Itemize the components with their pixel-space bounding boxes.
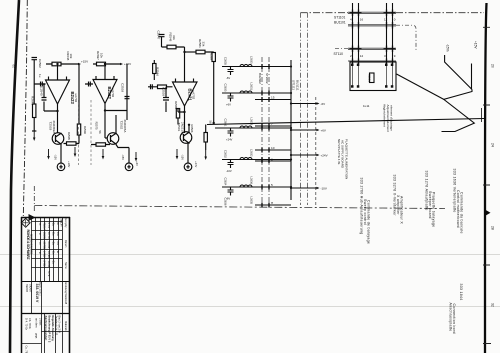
svg-text:8: 8 [271,158,273,162]
svg-text:L2633: L2633 [250,56,254,64]
svg-text:10.98: 10.98 [47,251,51,258]
svg-text:C2633: C2633 [224,84,228,92]
svg-text:MUNCHEN BRD: MUNCHEN BRD [29,234,33,254]
svg-text:H: H [271,201,273,205]
svg-text:ST110: ST110 [334,52,344,56]
svg-text:T2503: T2503 [49,122,53,131]
svg-text:R2501: R2501 [368,74,372,82]
svg-text:C2631: C2631 [224,119,228,127]
svg-text:16: 16 [360,18,364,22]
svg-text:32: 32 [491,303,495,307]
svg-text:R2506: R2506 [83,126,87,134]
svg-text:ST1111: ST1111 [292,80,296,90]
svg-text:Ch. 78 lb: Ch. 78 lb [28,318,32,329]
svg-text:R2585: R2585 [174,101,178,109]
svg-text:D: D [38,243,42,245]
svg-text:03.80: 03.80 [47,242,51,249]
svg-text:2N2905A: 2N2905A [123,120,127,134]
svg-text:1L11: 1L11 [363,104,370,108]
svg-text:333. 0019 V: 333. 0019 V [35,284,39,304]
svg-text:Mabstab: Mabstab [64,321,67,331]
svg-text:+15V: +15V [124,62,131,66]
svg-text:2 Blatt: 2 Blatt [39,318,43,326]
svg-text:10.98: 10.98 [47,261,51,268]
svg-text:L2635: L2635 [250,197,254,205]
svg-text:+24V: +24V [226,138,233,142]
svg-text:E: E [38,252,42,254]
svg-text:R2583: R2583 [210,52,214,60]
svg-text:BU1101: BU1101 [334,21,346,25]
svg-text:Cu. 78 lb: Cu. 78 lb [25,346,29,353]
svg-text:Zeichnung geandert: Zeichnung geandert [44,316,48,341]
svg-text:+15V: +15V [473,41,477,49]
svg-text:15: 15 [271,96,275,100]
svg-text:gepr.: gepr. [35,333,39,339]
svg-text:Connection bord: Connection bord [452,304,456,334]
svg-text:L2632: L2632 [250,149,254,157]
svg-text:Ecz.phy: Ecz.phy [64,219,67,229]
svg-text:33k: 33k [201,42,205,47]
svg-text:333 3278 X-Verstarker: 333 3278 X-Verstarker [393,175,397,217]
svg-text:56: 56 [209,121,213,124]
svg-text:333 1278 Ablaufplatte: 333 1278 Ablaufplatte [425,171,429,211]
svg-text:BU2602: BU2602 [258,73,262,84]
svg-text:10k: 10k [99,53,103,58]
svg-text:Commando du bascule: Commando du bascule [460,192,464,234]
svg-text:C2634: C2634 [224,178,228,186]
svg-text:X amplifier: X amplifier [396,195,400,215]
svg-text:ST2602: ST2602 [265,73,269,84]
svg-text:7: 7 [271,122,273,126]
svg-text:1u: 1u [38,74,42,78]
svg-text:Abgabe an Neu: Abgabe an Neu [39,282,42,296]
svg-text:-6V: -6V [321,102,326,106]
svg-text:C2538: C2538 [161,87,165,96]
svg-text:C2632: C2632 [224,150,228,158]
svg-text:T2502: T2502 [120,121,124,130]
svg-text:R2566: R2566 [190,125,194,133]
svg-text:L2636: L2636 [250,177,254,185]
svg-text:L2638: L2638 [250,118,254,126]
svg-text:Blatt 2 von 2 Bl: Blatt 2 von 2 Bl [58,316,62,334]
svg-text:element d'ajustage: element d'ajustage [390,105,394,131]
svg-text:Amplificateur X: Amplificateur X [400,196,404,224]
svg-text:Co: Co [51,242,55,246]
svg-text:20: 20 [491,64,495,68]
svg-text:Anderung Werkstoff: Anderung Werkstoff [64,282,67,304]
svg-text:C2540: C2540 [40,87,44,96]
svg-text:B: B [38,224,42,226]
svg-text:R2546: R2546 [156,67,160,76]
svg-text:33k: 33k [172,35,176,40]
svg-text:Name: Name [64,262,67,269]
svg-text:Sweeper board: Sweeper board [428,191,432,219]
svg-text:uA702: uA702 [191,91,195,100]
svg-text:24924: 24924 [42,251,46,259]
svg-text:+24V: +24V [321,153,328,157]
svg-text:L2631: L2631 [250,83,254,91]
svg-text:5: 5 [271,183,273,187]
svg-text:Commande de balayage: Commande de balayage [367,200,371,244]
svg-text:D 4. 70 Gr: D 4. 70 Gr [25,318,29,330]
svg-text:C2547: C2547 [156,31,160,40]
svg-text:ant dem: ant dem [35,318,39,327]
svg-text:23: 23 [12,64,16,68]
svg-text:uA702: uA702 [111,89,115,98]
svg-text:333 1844: 333 1844 [459,284,463,301]
svg-text:Cu: Cu [51,223,55,227]
svg-text:5.73: 5.73 [47,223,51,229]
svg-text:R2505: R2505 [67,132,71,140]
svg-text:10: 10 [271,146,275,150]
svg-text:R2643: R2643 [30,96,34,105]
svg-text:-6V: -6V [226,76,230,80]
svg-text:5.73: 5.73 [47,271,51,277]
svg-text:-15V: -15V [54,154,58,160]
svg-text:25296: 25296 [42,232,46,240]
svg-text:Adjustment element: Adjustment element [386,105,390,132]
svg-text:Co: Co [51,232,55,236]
svg-text:Tag/Jm: Tag/Jm [60,219,63,227]
svg-text:R2575: R2575 [95,122,99,130]
svg-text:C: C [38,233,42,235]
svg-text:C2502: C2502 [38,59,42,68]
svg-text:NETZPLATTE 4 W.: NETZPLATTE 4 W. [337,139,341,165]
svg-text:-15V: -15V [121,154,125,160]
svg-text:333 2760 Hub-Ablaufsteuerung: 333 2760 Hub-Ablaufsteuerung [360,178,364,235]
svg-text:-10V: -10V [226,169,232,173]
svg-text:75234: 75234 [42,223,46,231]
svg-text:AC SUPPLY BOARD: AC SUPPLY BOARD [341,140,345,169]
svg-text:-10V: -10V [321,186,327,190]
svg-text:C2635: C2635 [224,57,228,65]
svg-text:25795: 25795 [42,242,46,250]
svg-text:+6V: +6V [135,161,139,166]
svg-text:+6V: +6V [226,103,231,107]
svg-text:-15V: -15V [181,154,185,160]
svg-text:Bezeichnung P 01 V 2: Bezeichnung P 01 V 2 [48,316,52,343]
svg-text:+24V: +24V [194,161,198,168]
svg-text:ST1101: ST1101 [334,16,345,20]
svg-text:Anschlussplatte: Anschlussplatte [449,303,453,332]
svg-text:10k: 10k [69,54,73,59]
svg-text:Sweep control: Sweep control [363,199,367,225]
svg-text:BU1111: BU1111 [296,80,300,91]
svg-text:24: 24 [491,143,495,147]
svg-text:2N2219A: 2N2219A [180,122,184,136]
svg-text:28: 28 [491,226,495,230]
svg-text:Plaquette balayage: Plaquette balayage [432,192,436,227]
svg-text:12: 12 [360,54,364,58]
svg-text:Datum: Datum [64,240,67,247]
svg-text:-15%: -15% [445,44,449,52]
svg-text:Ca: Ca [56,232,60,236]
svg-text:PLAQUETTE ALIMENTATION: PLAQUETTE ALIMENTATION [344,139,348,179]
svg-text:C2539: C2539 [120,83,124,92]
svg-text:+10V: +10V [67,161,71,168]
svg-text:24924: 24924 [42,261,46,269]
svg-text:2N2369A: 2N2369A [52,121,56,135]
svg-text:11.73: 11.73 [47,232,51,239]
svg-text:333 1636 Verteilerplatte: 333 1636 Verteilerplatte [453,169,457,213]
svg-text:Control motherboard: Control motherboard [456,190,460,228]
svg-text:56: 56 [98,131,102,134]
svg-text:+15V: +15V [81,60,88,64]
svg-text:12: 12 [384,18,388,22]
svg-text:SKART: SKART [28,284,32,293]
svg-text:Abgleichelement: Abgleichelement [383,104,387,127]
svg-text:+6V: +6V [321,128,326,132]
svg-text:uA702: uA702 [74,94,78,103]
svg-text:-6V: -6V [226,197,230,201]
